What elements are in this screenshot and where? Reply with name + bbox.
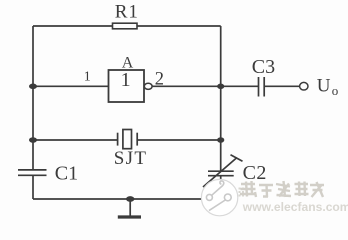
- capacitor C1 plates: [18, 169, 47, 171]
- wire: left vertical (top section): [32, 26, 34, 170]
- node: junction left at pin1 wire: [29, 84, 37, 90]
- wire: C3 to output terminal: [265, 85, 300, 87]
- wire: right vertical (top section): [220, 26, 222, 171]
- svg-text:o: o: [332, 83, 339, 98]
- node: junction at ground: [126, 196, 134, 202]
- op-amp U1 gate A box: [109, 70, 145, 102]
- svg-text:C2: C2: [243, 162, 267, 184]
- gate A output bubble: [144, 83, 152, 89]
- svg-text:1: 1: [84, 70, 91, 85]
- output terminal circle: [300, 82, 308, 90]
- svg-text:C3: C3: [252, 56, 275, 78]
- wire: top horizontal left of R1: [33, 25, 113, 27]
- watermark hanzi strokes: [240, 181, 324, 197]
- capacitor C2 variable arrow: [203, 158, 237, 188]
- crystal SJT plates and body: [117, 133, 119, 146]
- wire: gate output to node: [152, 85, 258, 87]
- capacitor C2 plates: [208, 170, 234, 172]
- svg-text:U: U: [317, 75, 331, 96]
- resistor R1: [113, 23, 138, 29]
- ground bar: [118, 215, 141, 218]
- node: junction right at crystal wire: [217, 137, 224, 143]
- wire: right vertical (below C2): [220, 176, 222, 199]
- watermark logo circle: [201, 179, 237, 215]
- node: junction left at crystal wire: [29, 137, 37, 143]
- svg-text:C1: C1: [55, 163, 78, 185]
- capacitor C3 plates: [258, 77, 260, 97]
- wire: crystal row right segment: [137, 139, 221, 141]
- wire: input to gate A pin 1: [33, 85, 109, 87]
- svg-text:www.elecfans.com: www.elecfans.com: [242, 200, 348, 214]
- watermark dots: [239, 188, 245, 197]
- svg-text:SJT: SJT: [114, 148, 147, 169]
- wire: top horizontal right of R1: [137, 25, 221, 27]
- wire: bottom horizontal: [33, 198, 221, 200]
- ground stub: [129, 199, 131, 216]
- wire: crystal row left segment: [33, 139, 118, 141]
- wire: left vertical (below C1): [32, 176, 34, 199]
- node: junction right at output wire: [217, 84, 224, 90]
- svg-text:1: 1: [121, 69, 131, 91]
- svg-text:2: 2: [155, 70, 164, 90]
- svg-text:R1: R1: [115, 2, 139, 23]
